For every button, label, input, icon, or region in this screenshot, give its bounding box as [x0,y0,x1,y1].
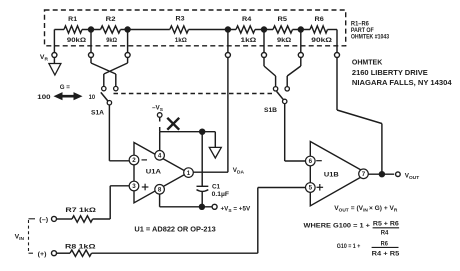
svg-text:R5: R5 [278,16,288,23]
svg-text:90kΩ: 90kΩ [311,37,332,44]
svg-text:(–): (–) [39,218,48,224]
svg-text:R4: R4 [381,230,389,237]
svg-text:R6: R6 [381,240,389,247]
svg-text:6: 6 [309,158,313,165]
svg-text:R6: R6 [315,16,325,23]
svg-text:WHERE G100 = 1 +: WHERE G100 = 1 + [304,223,370,230]
svg-text:4: 4 [158,153,162,160]
svg-text:R8 1kΩ: R8 1kΩ [65,243,96,250]
svg-text:2160 LIBERTY DRIVE: 2160 LIBERTY DRIVE [352,70,428,77]
svg-text:0.1µF: 0.1µF [212,191,230,198]
svg-text:NIAGARA FALLS, NY 14304: NIAGARA FALLS, NY 14304 [352,80,452,87]
svg-text:G =: G = [60,84,71,91]
svg-text:R3: R3 [176,16,185,23]
svg-text:G10 = 1 +: G10 = 1 + [337,244,361,250]
svg-text:9kΩ: 9kΩ [277,37,292,44]
svg-text:OHMTEK #1043: OHMTEK #1043 [351,34,390,41]
svg-text:8: 8 [158,187,162,194]
svg-text:S1A: S1A [91,110,104,117]
svg-text:U1 = AD822 OR OP-213: U1 = AD822 OR OP-213 [134,227,215,234]
svg-text:OHMTEK: OHMTEK [352,59,382,66]
svg-text:10: 10 [89,94,96,101]
svg-text:1kΩ: 1kΩ [175,37,188,44]
svg-text:5: 5 [309,185,313,192]
svg-text:S1B: S1B [264,107,277,114]
svg-text:U1B: U1B [324,171,339,178]
svg-text:7: 7 [362,171,366,178]
svg-text:2: 2 [132,157,136,164]
svg-text:1kΩ: 1kΩ [241,37,257,44]
svg-text:R2: R2 [106,16,116,23]
svg-text:100: 100 [37,94,50,101]
svg-text:U1A: U1A [146,169,162,176]
svg-text:R4: R4 [242,16,252,23]
svg-text:1: 1 [187,170,191,177]
svg-text:R4 + R5: R4 + R5 [372,250,400,257]
svg-text:9kΩ: 9kΩ [106,37,117,44]
svg-text:(+): (+) [38,252,47,258]
svg-text:R5 + R6: R5 + R6 [373,220,399,227]
svg-text:R7 1kΩ: R7 1kΩ [65,207,96,214]
svg-text:90kΩ: 90kΩ [67,37,87,44]
svg-text:R1: R1 [68,16,77,23]
svg-text:3: 3 [132,183,136,190]
svg-text:C1: C1 [212,184,221,191]
